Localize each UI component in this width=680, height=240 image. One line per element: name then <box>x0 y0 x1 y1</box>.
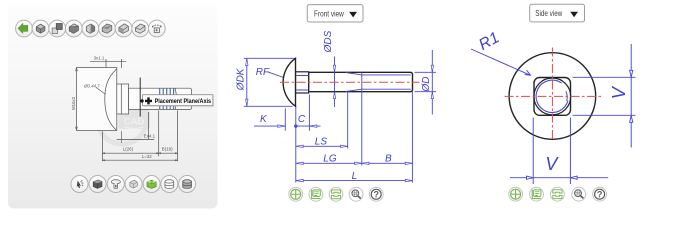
square neck <box>534 78 571 116</box>
svg-text:L=32: L=32 <box>142 154 152 159</box>
dome arc inside head <box>105 69 117 130</box>
V bottom ext lines <box>533 118 570 185</box>
crosshair centerlines <box>505 95 604 97</box>
square neck <box>296 72 309 93</box>
left drawing <box>71 56 214 162</box>
button select cursor <box>71 176 88 193</box>
dropdown Side view <box>530 4 585 22</box>
svg-text:RF: RF <box>256 67 270 78</box>
button cylinder wire <box>161 176 178 193</box>
head circle <box>509 53 596 140</box>
dim row 2 <box>103 159 178 161</box>
inscribed circle <box>534 78 571 115</box>
head rectangle <box>77 68 117 131</box>
svg-text:K: K <box>260 114 268 125</box>
bottom toolbar <box>71 176 196 193</box>
left preview panel background <box>8 3 218 209</box>
button view cube 7 <box>132 20 149 37</box>
neck <box>117 84 129 114</box>
bolt outline <box>283 58 412 106</box>
ODS dim line over shaft <box>334 57 336 108</box>
svg-text:Side view: Side view <box>535 9 562 18</box>
labels <box>476 29 629 174</box>
top toolbar <box>16 20 166 37</box>
blue dimension geometry <box>244 50 436 183</box>
OD ext+dim <box>415 72 437 91</box>
button gray cube <box>125 176 142 193</box>
button view cube 5 <box>99 20 116 37</box>
icon row <box>289 187 303 201</box>
dim row 1 <box>103 111 178 162</box>
svg-text:3x1.1: 3x1.1 <box>94 56 105 61</box>
svg-text:L(26): L(26) <box>123 146 134 151</box>
svg-text:C: C <box>298 114 306 125</box>
CAD watermark logo <box>97 94 150 144</box>
svg-text:ØDS: ØDS <box>323 30 334 53</box>
svg-text:CAD: CAD <box>124 117 145 128</box>
common ext lines <box>296 92 413 183</box>
ext line neck <box>120 131 122 143</box>
shank + thread body <box>309 72 413 91</box>
button dark box <box>89 176 106 193</box>
svg-text:B(19): B(19) <box>162 146 173 151</box>
svg-text:ØD: ØD <box>421 77 432 93</box>
thread lines <box>160 88 174 109</box>
button view cube 1 <box>32 20 49 37</box>
LG & B dim <box>296 162 413 164</box>
LS dim <box>347 93 349 149</box>
shaft circle <box>536 80 568 112</box>
centerline <box>280 81 420 83</box>
middle front view <box>236 5 436 202</box>
tiny dim texts <box>71 56 173 159</box>
placement plane line <box>139 78 141 117</box>
svg-text:Ø0.44.7: Ø0.44.7 <box>83 84 100 89</box>
button rotate view <box>148 20 165 37</box>
L dim <box>296 180 413 182</box>
dim junction dot <box>294 124 297 127</box>
dropdown Front view <box>307 5 363 22</box>
right side view <box>471 4 636 201</box>
svg-text:B: B <box>385 153 392 164</box>
button view cube 2 <box>49 20 66 37</box>
svg-text:V: V <box>545 154 559 174</box>
svg-text:Ex4.1: Ex4.1 <box>144 134 156 139</box>
svg-text:M16x2: M16x2 <box>71 96 76 110</box>
thread runout + minor lines <box>333 57 411 166</box>
head <box>283 58 295 106</box>
svg-text:Placement Plane/Axis: Placement Plane/Axis <box>155 98 212 105</box>
button cylinder solid <box>179 176 196 193</box>
E dim line <box>117 112 155 139</box>
svg-text:V: V <box>609 85 629 99</box>
button back <box>16 20 33 37</box>
neck flat lines <box>296 76 308 91</box>
svg-text:ØDK: ØDK <box>236 67 247 91</box>
K dim <box>284 108 286 130</box>
thread end boundary <box>175 88 176 109</box>
button view cube 6 <box>115 20 132 37</box>
button view cube 3 <box>65 20 82 37</box>
icon row <box>509 187 523 201</box>
button view cube 4 <box>82 20 99 37</box>
top dim line <box>90 60 126 62</box>
LG/B boundary ext line over shaft <box>361 73 363 166</box>
button green box <box>143 176 160 193</box>
head dia dim arrows on left edge <box>76 68 78 131</box>
ODK dim line <box>246 58 248 106</box>
C dim <box>308 95 310 131</box>
placement tooltip <box>140 95 214 108</box>
shank <box>129 88 192 109</box>
leader for radius label <box>96 88 106 95</box>
RF leader <box>268 72 287 79</box>
svg-text:L: L <box>352 171 358 182</box>
V right dim line <box>630 44 632 148</box>
V right ext lines <box>573 77 636 115</box>
button screw-plug <box>107 176 124 193</box>
svg-text:LS: LS <box>315 137 328 148</box>
svg-text:R1: R1 <box>476 29 502 54</box>
svg-text:Front view: Front view <box>314 9 344 18</box>
ODK ext lines <box>244 58 295 106</box>
V bottom dim line <box>510 177 608 179</box>
svg-text:LG: LG <box>323 153 337 164</box>
R1 leader <box>471 49 531 75</box>
